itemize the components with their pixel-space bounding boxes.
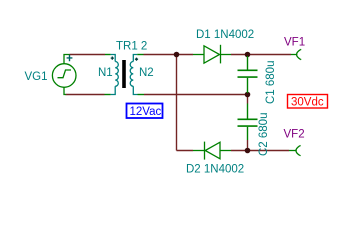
generator VG1: [52, 55, 76, 95]
transformer winding N2: [130, 55, 137, 95]
svg-text:D2 1N4002: D2 1N4002: [186, 164, 244, 176]
svg-text:VF2: VF2: [284, 129, 305, 141]
wire C2 bottom lead: [247, 140, 249, 151]
wire lead N1 top (green): [105, 54, 111, 56]
junction node B (247.5,54.5): [245, 52, 251, 58]
capacitor C2: [238, 104, 258, 141]
annotation box 30Vdc: [288, 95, 328, 109]
svg-text:12Vac: 12Vac: [130, 106, 162, 118]
annotation box 12Vac: [127, 104, 163, 119]
junction node C (247.5,94.5): [245, 92, 251, 98]
svg-text:N1: N1: [98, 67, 113, 79]
wire lead N1 bottom (green): [105, 94, 111, 96]
polarity mark N1 +: [111, 57, 114, 60]
wire D1 to VF1: [231, 54, 291, 56]
terminal VF1: [291, 49, 301, 59]
wire C2 top lead (maroon stub): [247, 96, 249, 104]
svg-text:N2: N2: [139, 67, 154, 79]
svg-text:TR1 2: TR1 2: [116, 41, 147, 53]
polarity mark N2 +: [135, 58, 138, 61]
wire top-left rail (VG1 top to N1 top): [70, 54, 106, 56]
wire vertical from node A down to bottom rail: [176, 55, 178, 151]
diode D1: [193, 45, 231, 64]
junction node D (247.5,150.5): [245, 148, 251, 154]
svg-text:C1 680u: C1 680u: [265, 61, 277, 104]
diode D2: [193, 142, 231, 160]
svg-text:30Vdc: 30Vdc: [291, 97, 324, 109]
polarity mark VG1 +: [67, 55, 73, 61]
svg-text:D1 1N4002: D1 1N4002: [196, 29, 254, 41]
transformer winding N1: [111, 55, 119, 95]
junction node A (176.5,54.5): [174, 52, 180, 58]
wire bottom-left rail (VG1 bottom to N1 bottom): [66, 94, 105, 96]
svg-text:VG1: VG1: [25, 71, 48, 83]
svg-text:C2 680u: C2 680u: [258, 113, 270, 156]
wire bottom rail (to D2): [177, 150, 194, 152]
wire D2 to VF2: [231, 150, 289, 152]
transformer TR1 core: [122, 60, 126, 88]
wire lead N2 bottom (green): [138, 94, 145, 96]
capacitor C1: [238, 56, 258, 93]
wire lead N2 top (green): [137, 54, 143, 56]
svg-text:VF1: VF1: [284, 37, 305, 49]
terminal VF2: [289, 146, 301, 156]
wire middle rail (N2 bottom to capacitor node): [144, 94, 248, 96]
wire secondary top rail (N2 top to D1): [144, 54, 194, 56]
